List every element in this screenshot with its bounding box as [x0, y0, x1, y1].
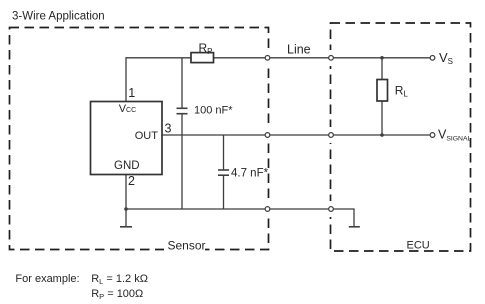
svg-text:Sensor: Sensor: [168, 238, 206, 252]
svg-text:4.7 nF*: 4.7 nF*: [231, 168, 269, 180]
svg-text:3-Wire Application: 3-Wire Application: [12, 10, 105, 22]
svg-text:GND: GND: [114, 160, 140, 172]
svg-text:3: 3: [165, 121, 172, 135]
svg-text:1: 1: [128, 86, 135, 100]
svg-text:100 nF*: 100 nF*: [194, 105, 233, 117]
svg-text:Line: Line: [287, 43, 311, 57]
svg-text:OUT: OUT: [135, 130, 159, 142]
svg-text:RP = 100Ω: RP = 100Ω: [91, 288, 143, 301]
svg-text:2: 2: [128, 174, 135, 188]
svg-text:For example:: For example:: [15, 273, 79, 285]
svg-text:ECU: ECU: [407, 239, 430, 251]
